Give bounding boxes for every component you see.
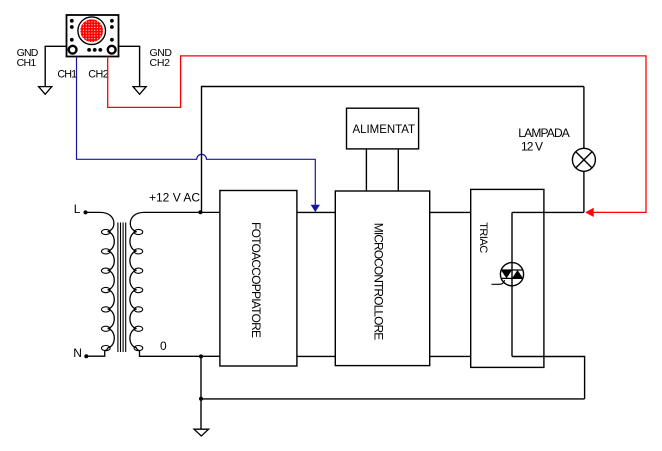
- wire +12V node to top rail: [202, 87, 584, 213]
- svg-text:CH2: CH2: [150, 57, 171, 69]
- transformer T1 secondary winding: [130, 232, 137, 348]
- svg-text:CH2: CH2: [88, 68, 109, 80]
- wire bottom return rail: [201, 398, 585, 400]
- transformer T1 secondary top lead: [130, 212, 220, 231]
- svg-text:LAMPADA: LAMPADA: [518, 126, 570, 140]
- wire lamp top lead: [583, 87, 585, 149]
- transformer T1 secondary bottom lead: [137, 348, 220, 357]
- wire scope GND CH1: [45, 46, 66, 86]
- triac Q1 symbol: [492, 263, 524, 286]
- svg-text:N: N: [73, 346, 82, 360]
- transformer T1 secondary loops: [134, 229, 143, 350]
- arrow probe CH1: [311, 205, 319, 212]
- ground GND CH1: [39, 87, 52, 95]
- lamp LAMPADA 12V: [572, 148, 595, 171]
- svg-text:MICROCONTROLLORE: MICROCONTROLLORE: [372, 223, 386, 341]
- box ALIMENTAT: [347, 108, 419, 149]
- svg-text:+12 V AC: +12 V AC: [149, 190, 200, 204]
- oscilloscope BNC CH1: [69, 46, 77, 54]
- box FOTOACCOPPIATORE: [220, 191, 297, 367]
- oscilloscope BNC CH2: [108, 46, 116, 54]
- wire triac MT1 vertical: [511, 212, 513, 356]
- svg-text:TRIAC: TRIAC: [477, 222, 489, 253]
- transformer T1 core: [118, 223, 126, 353]
- svg-text:CH1: CH1: [57, 68, 77, 80]
- wire probe CH2 (red): [108, 56, 646, 213]
- wire lamp bottom lead: [583, 171, 585, 212]
- box MICROCONTROLLORE: [335, 191, 429, 366]
- node bottom rail junction: [199, 397, 203, 401]
- transformer T1 primary N lead: [86, 348, 107, 356]
- wire ALIMENTAT pin 2: [397, 149, 399, 191]
- oscilloscope knobs: [70, 19, 114, 52]
- svg-text:CH1: CH1: [17, 57, 37, 69]
- node +12V junction: [198, 210, 202, 214]
- wire junction to ground: [200, 399, 202, 429]
- node N: [84, 354, 88, 358]
- box TRIAC: [471, 189, 544, 367]
- oscilloscope screen hatch: [80, 19, 103, 42]
- svg-text:L: L: [74, 202, 81, 216]
- arrow probe CH2: [586, 208, 594, 216]
- wire triac MT2 to lamp node: [512, 211, 584, 213]
- wire probe CH1 (blue): [77, 57, 316, 206]
- wire top rail foto-micro: [297, 211, 335, 213]
- node 0V junction: [199, 354, 203, 358]
- svg-text:0: 0: [160, 339, 167, 353]
- wire junction to 0V rail: [200, 356, 202, 399]
- svg-text:FOTOACCOPPIATORE: FOTOACCOPPIATORE: [249, 222, 263, 338]
- wire scope GND CH2: [119, 46, 140, 86]
- oscilloscope screen: [78, 17, 106, 45]
- ground GND CH2: [133, 87, 146, 95]
- wire ALIMENTAT pin 1: [365, 149, 367, 191]
- ground main: [194, 429, 209, 436]
- transformer T1 primary loops: [101, 229, 110, 350]
- node L: [84, 210, 88, 214]
- oscilloscope body: [67, 15, 119, 57]
- transformer T1 primary winding: [108, 232, 115, 348]
- svg-text:ALIMENTAT: ALIMENTAT: [353, 124, 416, 136]
- transformer T1 primary L lead: [86, 212, 114, 231]
- wire bottom rail foto-micro: [297, 355, 335, 357]
- wire bottom rail micro-triac: [430, 355, 471, 357]
- wire triac MT1 to return rail: [512, 357, 585, 399]
- wire top rail micro-triac: [430, 211, 471, 213]
- svg-text:12 V: 12 V: [521, 139, 543, 153]
